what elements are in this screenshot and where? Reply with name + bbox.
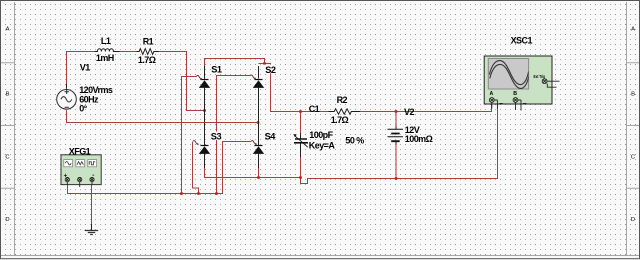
svg-text:A: A: [490, 91, 494, 97]
svg-text:R1: R1: [143, 36, 154, 46]
svg-text:S1: S1: [211, 65, 222, 75]
svg-text:C: C: [631, 154, 635, 160]
svg-text:R2: R2: [337, 95, 348, 105]
svg-text:0°: 0°: [79, 104, 87, 114]
svg-text:A: A: [6, 27, 10, 33]
svg-text:B: B: [513, 91, 517, 97]
svg-text:D: D: [631, 217, 635, 223]
svg-text:S3: S3: [211, 131, 222, 141]
svg-text:120Vrms: 120Vrms: [79, 85, 113, 95]
svg-text:D: D: [5, 217, 9, 223]
svg-text:100mΩ: 100mΩ: [405, 134, 433, 144]
svg-text:L1: L1: [101, 36, 111, 46]
svg-text:Key=A: Key=A: [309, 141, 336, 151]
svg-text:XFG1: XFG1: [69, 146, 91, 156]
svg-text:V2: V2: [404, 107, 414, 117]
svg-text:S4: S4: [265, 132, 277, 142]
svg-text:A: A: [631, 27, 635, 33]
svg-text:S2: S2: [265, 65, 276, 75]
svg-text:1mH: 1mH: [96, 53, 114, 63]
svg-text:B: B: [6, 92, 10, 98]
svg-text:1.7Ω: 1.7Ω: [138, 55, 156, 65]
svg-text:Ext Trig: Ext Trig: [534, 74, 546, 79]
svg-text:C1: C1: [309, 104, 320, 114]
svg-text:100pF: 100pF: [309, 130, 333, 140]
svg-text:1.7Ω: 1.7Ω: [331, 115, 349, 125]
svg-text:V1: V1: [80, 62, 90, 72]
svg-text:XSC1: XSC1: [511, 36, 533, 46]
svg-text:50 %: 50 %: [345, 136, 364, 146]
svg-text:C: C: [5, 154, 9, 160]
svg-text:B: B: [631, 92, 635, 98]
